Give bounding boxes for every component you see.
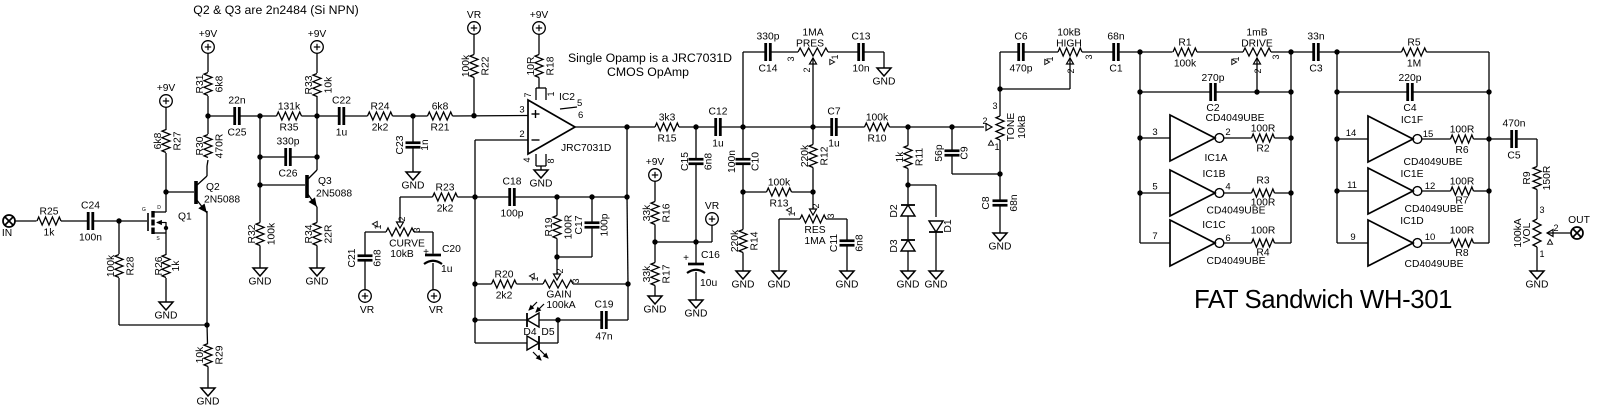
note: opamp type line1 xyxy=(568,51,732,65)
capacitor C13 10n xyxy=(852,32,871,75)
svg-text:2: 2 xyxy=(802,67,812,72)
node: LED left junction xyxy=(472,317,477,322)
capacitor C6 470p xyxy=(1010,32,1033,75)
svg-text:6: 6 xyxy=(578,110,583,121)
svg-text:R32: R32 xyxy=(247,224,258,243)
svg-text:C9: C9 xyxy=(960,146,971,159)
svg-text:R9: R9 xyxy=(1522,171,1533,184)
node: C2 right xyxy=(1288,89,1293,94)
power VR under C21 xyxy=(359,290,374,316)
pot RES 1MA xyxy=(786,203,836,247)
resistor R25 1k xyxy=(37,207,61,239)
svg-text:R11: R11 xyxy=(915,148,926,166)
svg-text:2: 2 xyxy=(1225,127,1230,138)
svg-text:VR: VR xyxy=(429,305,443,316)
svg-text:C25: C25 xyxy=(228,128,247,139)
svg-text:+9V: +9V xyxy=(646,157,665,168)
capacitor C20 1u electrolytic xyxy=(423,244,461,290)
wire C3 to R5 xyxy=(1318,51,1401,53)
node: C23 junction xyxy=(410,113,415,118)
svg-text:R24: R24 xyxy=(371,102,390,113)
wire R34 to ground xyxy=(316,246,318,269)
resistor R9 150R xyxy=(1522,166,1553,219)
wire R27 to Q1 drain node xyxy=(165,153,167,205)
svg-text:33k: 33k xyxy=(642,204,653,221)
pin 7 and pin 1 stubs of IC2 xyxy=(523,88,556,100)
svg-text:Q2: Q2 xyxy=(206,182,220,193)
svg-text:100R: 100R xyxy=(1251,124,1276,135)
svg-text:100R: 100R xyxy=(1251,198,1276,209)
capacitor C3 33n xyxy=(1307,32,1324,75)
svg-text:GND: GND xyxy=(155,311,178,322)
node: LED right junction xyxy=(555,317,560,322)
wire R10 to TONE wiper xyxy=(890,126,985,128)
svg-text:+: + xyxy=(423,247,429,258)
wire tap to C25 xyxy=(208,115,235,117)
capacitor C23 1n xyxy=(395,116,431,172)
wire CURVE pin1 to C21 xyxy=(365,232,386,256)
wire R20 to pin2 column xyxy=(475,283,492,285)
node: Q3 collector column top xyxy=(314,113,319,118)
node: R22 bottom junction xyxy=(471,113,476,118)
svg-text:C21: C21 xyxy=(347,248,358,267)
svg-text:D5: D5 xyxy=(541,327,554,338)
power +9V above R31 xyxy=(199,29,218,53)
wire to GAIN wiper xyxy=(556,257,558,274)
diode D3 xyxy=(889,216,915,271)
svg-text:330p: 330p xyxy=(277,137,300,148)
node: R7 right xyxy=(1486,188,1491,193)
svg-text:14: 14 xyxy=(1346,128,1357,139)
capacitor C9 56p xyxy=(934,127,1000,174)
node: R16/R17 junction xyxy=(652,239,657,244)
capacitor C15 6n8 xyxy=(680,127,715,242)
svg-text:IN: IN xyxy=(2,228,12,239)
resistor R35 131k xyxy=(277,102,302,134)
node: diode node xyxy=(905,182,910,187)
wire base to Q3 xyxy=(260,184,305,186)
resistor R11 1k xyxy=(895,127,926,185)
node: IC1F input xyxy=(1334,136,1339,141)
ground under RES pin1 xyxy=(768,271,791,291)
svg-text:100R: 100R xyxy=(564,215,575,240)
svg-text:R4: R4 xyxy=(1256,248,1269,259)
ground right of C13 xyxy=(873,68,896,88)
svg-text:C17: C17 xyxy=(574,215,585,234)
svg-text:R6: R6 xyxy=(1455,145,1468,156)
svg-text:2: 2 xyxy=(397,216,407,221)
svg-text:GND: GND xyxy=(685,309,708,320)
capacitor C5 470n xyxy=(1489,119,1537,162)
svg-text:GND: GND xyxy=(768,280,791,291)
svg-text:VR: VR xyxy=(705,201,719,212)
wire C26 right lead xyxy=(290,156,317,158)
wire R26 to ground xyxy=(165,278,167,302)
resistor R27 6k8 xyxy=(153,130,184,153)
svg-text:10u: 10u xyxy=(700,278,717,289)
svg-text:GND: GND xyxy=(402,181,425,192)
svg-text:1k: 1k xyxy=(895,151,906,163)
svg-text:R14: R14 xyxy=(750,231,761,250)
svg-text:7: 7 xyxy=(1152,231,1157,242)
svg-text:GND: GND xyxy=(925,280,948,291)
svg-text:R31: R31 xyxy=(195,74,206,93)
capacitor C17 100p xyxy=(557,197,611,257)
node: IC1B input xyxy=(1137,190,1142,195)
svg-text:Q1: Q1 xyxy=(178,212,192,223)
svg-text:R28: R28 xyxy=(126,256,137,275)
node: Q3 base column top xyxy=(257,113,262,118)
pot CURVE 10kB xyxy=(372,216,425,260)
wire GAIN pin3 to output column xyxy=(573,283,628,285)
svg-text:47n: 47n xyxy=(595,332,612,343)
svg-text:R19: R19 xyxy=(544,217,555,236)
node: IC1E input xyxy=(1334,188,1339,193)
capacitor C16 10u electrolytic xyxy=(683,242,720,300)
pot VOL 100kA vertical xyxy=(1513,205,1559,259)
svg-text:GND: GND xyxy=(197,397,220,408)
svg-text:C3: C3 xyxy=(1309,64,1322,75)
svg-text:100R: 100R xyxy=(1251,226,1276,237)
inverter U IC1C xyxy=(1140,220,1266,267)
svg-text:R25: R25 xyxy=(40,207,59,218)
svg-text:C23: C23 xyxy=(395,135,406,154)
svg-text:3: 3 xyxy=(1084,54,1094,59)
svg-text:3: 3 xyxy=(1539,205,1544,215)
wire VOL pin1 to ground xyxy=(1536,247,1538,271)
svg-text:G: G xyxy=(142,207,146,213)
pot GAIN 100kA xyxy=(529,268,581,311)
svg-text:1: 1 xyxy=(994,142,999,152)
svg-text:100k: 100k xyxy=(866,113,889,124)
svg-text:100n: 100n xyxy=(79,233,102,244)
resistor R24 2k2 xyxy=(368,102,393,134)
svg-text:R3: R3 xyxy=(1256,176,1269,187)
transistor Q2 2N5088 xyxy=(196,176,240,213)
wire C2 row xyxy=(1140,91,1291,93)
resistor R28 100k xyxy=(106,221,137,325)
wire C1 to R1 xyxy=(1118,51,1172,53)
svg-text:6k8: 6k8 xyxy=(215,75,226,92)
node: R12/R13/RES junction xyxy=(810,189,815,194)
svg-text:7: 7 xyxy=(523,92,533,97)
svg-text:IC1A: IC1A xyxy=(1205,153,1228,164)
svg-text:Single Opamp is a JRC7031D: Single Opamp is a JRC7031D xyxy=(568,51,732,65)
node: R2 right xyxy=(1288,135,1293,140)
node: C26 right xyxy=(314,154,319,159)
node: PRES wiper / R12 junction xyxy=(810,124,815,129)
resistor R3 100R xyxy=(1224,176,1291,209)
wire HIGH to C1 xyxy=(1082,51,1114,53)
wire C26 left lead xyxy=(260,156,286,158)
svg-text:R22: R22 xyxy=(481,56,492,75)
svg-text:C20: C20 xyxy=(442,244,461,255)
svg-text:C18: C18 xyxy=(503,177,522,188)
svg-text:Q2 & Q3 are 2n2484 (Si NPN): Q2 & Q3 are 2n2484 (Si NPN) xyxy=(193,3,358,17)
resistor R6 100R xyxy=(1422,125,1489,157)
svg-text:IC1D: IC1D xyxy=(1400,216,1423,227)
svg-text:PRES: PRES xyxy=(796,39,824,50)
title FAT Sandwich WH-301 xyxy=(1194,286,1452,314)
svg-text:C6: C6 xyxy=(1014,32,1027,43)
svg-text:CD4049UBE: CD4049UBE xyxy=(1404,157,1463,168)
svg-text:2N5088: 2N5088 xyxy=(204,195,240,206)
resistor R20 2k2 xyxy=(492,270,517,302)
node: Q1 source-body tie xyxy=(164,226,168,230)
node: R19/C17 bottom xyxy=(554,254,559,259)
svg-text:OUT: OUT xyxy=(1568,215,1590,226)
wire base column down xyxy=(259,116,261,185)
svg-text:D2: D2 xyxy=(889,204,900,217)
wire DRIVE wiper down xyxy=(1256,58,1258,92)
wire output column down xyxy=(627,127,628,320)
svg-text:IC2: IC2 xyxy=(559,92,575,103)
ground under C23 xyxy=(402,172,425,192)
svg-text:10kB: 10kB xyxy=(1017,115,1028,139)
power +9V above R18 xyxy=(530,10,549,34)
capacitor C10 100n xyxy=(727,127,762,192)
wire DRIVE to C3 xyxy=(1271,51,1314,53)
jack OUT xyxy=(1568,215,1590,239)
svg-text:68n: 68n xyxy=(1009,194,1020,211)
wire Q1 source to R26 xyxy=(165,233,167,255)
svg-text:2: 2 xyxy=(555,268,565,273)
svg-text:2: 2 xyxy=(811,203,821,208)
ground under R17 xyxy=(644,296,667,316)
svg-text:C5: C5 xyxy=(1507,151,1520,162)
ground under IC2 xyxy=(530,170,553,190)
wire R21 to opamp pin3 xyxy=(453,115,529,118)
node: output column joins feedback xyxy=(624,194,629,199)
svg-text:HIGH: HIGH xyxy=(1056,39,1082,50)
node: R31/R30/C25 tap xyxy=(205,113,210,118)
svg-text:330p: 330p xyxy=(757,32,780,43)
svg-text:+9V: +9V xyxy=(530,10,549,21)
svg-text:1MA: 1MA xyxy=(804,236,825,247)
node: R3 right xyxy=(1288,190,1293,195)
power VR tap xyxy=(705,201,719,225)
svg-text:100R: 100R xyxy=(1450,226,1475,237)
svg-text:C22: C22 xyxy=(332,96,351,107)
node: Q3 base junction xyxy=(257,182,262,187)
node: bank2 input column top xyxy=(1334,49,1339,54)
svg-text:C24: C24 xyxy=(81,201,100,212)
svg-text:56p: 56p xyxy=(934,144,945,161)
svg-text:3: 3 xyxy=(786,56,796,61)
svg-text:4: 4 xyxy=(522,157,532,162)
svg-text:D: D xyxy=(157,205,161,211)
svg-text:22n: 22n xyxy=(228,96,245,107)
svg-text:+: + xyxy=(683,253,689,264)
svg-text:GAIN: GAIN xyxy=(546,290,571,301)
svg-text:Q3: Q3 xyxy=(318,176,332,187)
node: C10/C14 column xyxy=(740,124,745,129)
wire C19 to output column xyxy=(606,319,628,321)
resistor R1 100k xyxy=(1173,38,1197,70)
node: R6 right / C5 left xyxy=(1486,136,1491,141)
svg-text:GND: GND xyxy=(732,280,755,291)
transistor Q1 JFET xyxy=(142,205,192,242)
svg-text:100k: 100k xyxy=(768,178,791,189)
svg-text:C16: C16 xyxy=(701,250,720,261)
svg-text:CD4049UBE: CD4049UBE xyxy=(1405,259,1464,270)
inverter U IC1F xyxy=(1337,115,1463,168)
resistor R2 100R xyxy=(1224,124,1291,155)
svg-text:GND: GND xyxy=(306,277,329,288)
wire CURVE wiper to R23 xyxy=(400,197,433,222)
svg-text:470n: 470n xyxy=(1503,119,1526,130)
svg-text:IC1B: IC1B xyxy=(1203,169,1226,180)
svg-text:100k: 100k xyxy=(1174,59,1197,70)
svg-text:R18: R18 xyxy=(546,56,557,75)
svg-text:3: 3 xyxy=(1152,127,1157,138)
svg-text:TONE: TONE xyxy=(1006,113,1017,142)
op-amp U IC2 JRC7031D xyxy=(519,92,611,154)
node: pin2/R23/C18 junction xyxy=(472,194,477,199)
ground under R29 xyxy=(197,388,220,408)
svg-text:R34: R34 xyxy=(304,224,315,243)
resistor R8 100R xyxy=(1422,226,1489,260)
node: C2 left xyxy=(1137,89,1142,94)
svg-text:220p: 220p xyxy=(1399,73,1422,84)
svg-text:GND: GND xyxy=(873,77,896,88)
svg-text:1: 1 xyxy=(1231,56,1241,61)
ground under R26 xyxy=(155,302,178,322)
transistor Q3 2N5088 xyxy=(307,170,352,207)
svg-text:R15: R15 xyxy=(658,134,677,145)
svg-text:VR: VR xyxy=(467,10,481,21)
LED D4 xyxy=(523,302,544,338)
wire R28 to emitter node xyxy=(119,324,207,326)
ground under R14 xyxy=(732,271,755,291)
svg-text:100R: 100R xyxy=(1450,125,1475,136)
node: C4 right xyxy=(1486,89,1491,94)
svg-text:131k: 131k xyxy=(278,102,301,113)
pins 4 and 8 stubs of IC2 xyxy=(522,154,556,170)
svg-text:220k: 220k xyxy=(730,229,741,252)
capacitor C19 47n xyxy=(595,300,614,343)
svg-text:D1: D1 xyxy=(943,219,954,232)
svg-text:IC1C: IC1C xyxy=(1202,220,1226,231)
svg-text:R16: R16 xyxy=(662,203,673,222)
wire opamp pin2 xyxy=(475,140,528,197)
svg-text:33n: 33n xyxy=(1307,32,1324,43)
wire R35 to collector node xyxy=(302,115,339,117)
svg-text:68n: 68n xyxy=(1107,32,1124,43)
svg-text:10k: 10k xyxy=(324,76,335,93)
ground under R34 xyxy=(306,268,329,288)
svg-text:R35: R35 xyxy=(280,123,299,134)
resistor R31 6k8 xyxy=(195,53,226,116)
pot DRIVE 1mB xyxy=(1231,28,1281,74)
svg-text:6k8: 6k8 xyxy=(153,132,164,149)
svg-text:R27: R27 xyxy=(173,131,184,150)
svg-text:33k: 33k xyxy=(642,265,653,282)
wire C5 to R9 xyxy=(1536,139,1538,167)
svg-text:10k: 10k xyxy=(195,346,206,363)
pot TONE 10kB vertical xyxy=(982,101,1028,152)
svg-text:C13: C13 xyxy=(852,32,871,43)
LED D5 xyxy=(475,320,558,360)
power VR under C20 xyxy=(428,290,443,316)
resistor R13 100k xyxy=(767,178,792,210)
svg-text:11: 11 xyxy=(1347,180,1357,191)
node: R13 left / R14 top xyxy=(740,189,745,194)
svg-text:C11: C11 xyxy=(829,234,840,252)
svg-text:IC1E: IC1E xyxy=(1401,169,1424,180)
wire C25 to R35 xyxy=(239,115,276,117)
resistor R19 100R xyxy=(544,197,575,257)
svg-text:DRIVE: DRIVE xyxy=(1241,39,1273,50)
node: DRIVE wiper on C2 wire xyxy=(1254,89,1259,94)
svg-text:VR: VR xyxy=(360,305,374,316)
svg-text:2k2: 2k2 xyxy=(496,291,513,302)
svg-text:VOL: VOL xyxy=(1522,222,1533,243)
wire to C18 xyxy=(475,196,510,198)
svg-text:C4: C4 xyxy=(1403,103,1416,114)
svg-text:R21: R21 xyxy=(431,123,450,134)
resistor R32 100k xyxy=(247,185,278,268)
svg-text:R13: R13 xyxy=(770,199,789,210)
node: emitter/R28/R29 junction xyxy=(204,322,209,327)
wire VOL wiper to OUT xyxy=(1547,232,1571,234)
capacitor C12 1u xyxy=(709,107,728,150)
capacitor C22 1u xyxy=(332,96,351,139)
svg-text:R7: R7 xyxy=(1455,196,1468,207)
svg-text:FAT Sandwich WH-301: FAT Sandwich WH-301 xyxy=(1194,286,1452,314)
wire Q2 emitter down xyxy=(206,211,208,325)
wire Q3 collector up xyxy=(316,116,318,170)
capacitor C14 330p xyxy=(757,32,780,75)
wire to R29 xyxy=(206,325,209,344)
wire C7 to R10 xyxy=(836,126,864,128)
svg-text:CD4049UBE: CD4049UBE xyxy=(1206,113,1265,124)
svg-text:3: 3 xyxy=(992,101,997,111)
svg-text:3k3: 3k3 xyxy=(659,113,676,124)
inverter U IC1E xyxy=(1337,168,1464,215)
resistor R12 220k xyxy=(800,127,831,192)
diode D2 xyxy=(889,185,915,218)
pot HIGH 10kB xyxy=(1045,28,1094,74)
svg-text:GND: GND xyxy=(989,242,1012,253)
wire R1 to DRIVE xyxy=(1197,51,1243,53)
wire opamp output xyxy=(575,126,655,128)
wire R23 to pin2 node xyxy=(458,196,476,198)
wire base node to Q2 xyxy=(166,191,194,193)
resistor R18 10R xyxy=(526,34,557,88)
node: C15 top xyxy=(693,124,698,129)
wire LED row to C19 xyxy=(558,319,602,321)
svg-text:C1: C1 xyxy=(1109,64,1122,75)
capacitor C21 6n8 xyxy=(347,248,384,289)
wire PRES wiper down xyxy=(812,58,814,127)
wire R5 to right column xyxy=(1427,52,1490,92)
pin 5 stub of IC2 xyxy=(560,107,577,109)
wire C13 to ground xyxy=(863,52,884,68)
svg-text:R30: R30 xyxy=(195,136,206,155)
svg-text:6k8: 6k8 xyxy=(432,102,449,113)
svg-text:2: 2 xyxy=(1253,68,1263,73)
node: R19 top xyxy=(554,194,559,199)
wire PRES to C13 xyxy=(828,51,859,53)
svg-text:R17: R17 xyxy=(662,264,673,283)
wire C18 to output column xyxy=(514,196,627,198)
wire TONE pin3 up xyxy=(999,52,1001,116)
capacitor C4 220p xyxy=(1399,73,1422,114)
wire LED row xyxy=(475,319,558,321)
wire bank1 input column xyxy=(1139,52,1141,243)
svg-text:1k: 1k xyxy=(44,228,56,239)
